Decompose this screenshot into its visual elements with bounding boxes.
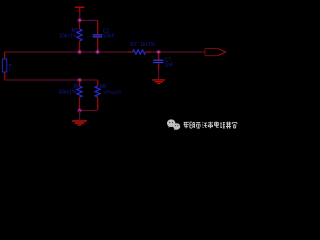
svg-text:10nF: 10nF: [103, 33, 115, 39]
node junction mid-left (R5): [78, 50, 81, 53]
resistor R4 (rect style, left edge): [2, 59, 12, 72]
node junction mid (C1): [96, 50, 99, 53]
svg-text:1k±1%: 1k±1%: [140, 42, 156, 48]
resistor R5: [59, 22, 82, 52]
capacitor C7: [153, 53, 174, 79]
wire left drop: [4, 52, 6, 59]
wire top bus y=20.4: [80, 19, 98, 21]
wire mid bus right: [146, 51, 151, 53]
node junction lower bus: [78, 78, 81, 81]
resistor R7: [130, 42, 156, 54]
node junction top: [78, 19, 81, 22]
power VCC bar symbol: [75, 7, 85, 20]
node junction right: [157, 50, 160, 53]
svg-text:10k±1%: 10k±1%: [59, 33, 78, 39]
svg-text:R8: R8: [99, 84, 106, 90]
svg-text:1nF: 1nF: [165, 62, 175, 68]
resistor R6: [58, 81, 82, 110]
svg-text:47k±1%: 47k±1%: [104, 90, 122, 96]
svg-text:1: 1: [9, 68, 11, 72]
watermark text 新能源汽车电磁兼容: [184, 122, 237, 129]
watermark logo (wechat): [167, 119, 180, 130]
wire bottom y=110.5: [80, 110, 98, 112]
svg-text:R7: R7: [130, 42, 137, 48]
svg-text:43k±1%: 43k±1%: [58, 90, 77, 96]
ground right: [152, 79, 165, 84]
wire lower bus y=80: [5, 79, 98, 81]
ground bottom: [72, 120, 87, 126]
port OUT: [205, 49, 226, 56]
wire mid bus y=52: [5, 51, 128, 53]
resistor R8: [95, 80, 122, 110]
capacitor C1: [93, 20, 115, 51]
wire gnd stem: [79, 111, 81, 121]
node junction bottom: [78, 109, 81, 112]
